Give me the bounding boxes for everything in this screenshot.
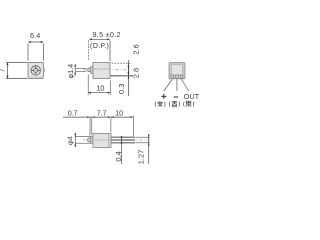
extension dash body top to dim stack (112, 62, 131, 64)
rear pin 3 (180, 75, 183, 78)
minus label (174, 96, 178, 98)
dimension 6.4 extension lines (27, 44, 29, 61)
rear view inner face (172, 65, 182, 75)
body right edge shade (108, 63, 109, 78)
dimension 9.5 +-0.2 extension lines (88, 41, 90, 61)
bottom center line (83, 139, 150, 141)
svg-text:7.7: 7.7 (97, 108, 107, 117)
chain extension lines (89, 118, 91, 136)
phi 4 arrows (74, 133, 76, 147)
svg-text:1.27: 1.27 (137, 150, 146, 164)
screw cross slot vertical (35, 66, 37, 75)
svg-text:φ4: φ4 (66, 136, 75, 145)
svg-text:10: 10 (96, 83, 104, 92)
rear view outer square (169, 63, 185, 79)
front square inner shade (29, 76, 43, 78)
top dimension chain line (63, 116, 133, 118)
dimension 0.4 leader line (121, 136, 123, 164)
bottom shaft collar (91, 137, 93, 144)
dim stack arrows at center line (128, 67, 130, 73)
center line (83, 69, 131, 71)
pin (side view lead) (110, 75, 133, 77)
svg-text:10: 10 (115, 108, 123, 117)
svg-text:2.8: 2.8 (132, 68, 141, 79)
rear pin 2 (176, 75, 179, 78)
shaft tip (88, 68, 91, 72)
dim stack arrow up at body top (128, 63, 130, 66)
rear pin 1 (171, 75, 174, 78)
front view body (28, 63, 44, 79)
svg-text:0.3: 0.3 (117, 84, 126, 95)
shaft collar (91, 67, 93, 74)
svg-text:2.6: 2.6 (132, 44, 141, 55)
lead 3 (111, 142, 135, 144)
dimension 1.27 leader line (148, 136, 150, 165)
side view body (93, 63, 110, 79)
wire color label (black 黒) (184, 101, 194, 106)
screw cross slot horizontal (31, 69, 40, 71)
lead 1 (111, 136, 135, 138)
svg-text:7: 7 (0, 68, 7, 72)
bottom view body (93, 134, 111, 148)
rear inner hatch (172, 65, 182, 74)
front view side nub (43, 69, 44, 72)
svg-text:(O.P.): (O.P.) (90, 43, 109, 50)
dimension 7 line (7, 63, 9, 78)
dim stack arrows at pin (128, 73, 130, 79)
bottom shaft tip (88, 138, 91, 142)
chain arrows (87, 116, 90, 118)
lead 2 (111, 139, 135, 141)
plus label (161, 94, 166, 99)
svg-text:0.7: 0.7 (68, 108, 78, 117)
svg-text:0.4: 0.4 (114, 151, 123, 162)
dimension 9.5 line (89, 38, 109, 40)
lead extension stubs (136, 136, 151, 138)
0.4 arrows at middle lead (121, 136, 123, 139)
bottom body seam (108, 134, 110, 147)
wire color label (brown 茶) (155, 101, 165, 107)
phi 1.4 extension lines (76, 67, 87, 69)
bottom body mid line (94, 139, 111, 141)
dimension 6.4 line (28, 41, 43, 43)
1.27 arrows (148, 134, 150, 137)
leader line pin2 to minus (176, 80, 178, 92)
dimension 7 extension lines (6, 62, 27, 64)
wire color label (blue 青) (169, 101, 179, 107)
side view bottom dim: ext lines (87, 75, 89, 95)
screw inner circle (34, 68, 38, 72)
leader line pin1 to plus (164, 80, 172, 92)
leader line pin3 to OUT (182, 80, 189, 92)
svg-text:9.5 ±0.2: 9.5 ±0.2 (93, 30, 121, 39)
svg-text:OUT: OUT (184, 92, 200, 101)
phi 4 extension lines (75, 136, 90, 138)
dimension stack vertical line (128, 60, 130, 96)
body seam line (94, 68, 110, 70)
adjustment screw outer circle (31, 66, 40, 75)
svg-text:φ1.4: φ1.4 (66, 64, 75, 79)
svg-text:6.4: 6.4 (30, 31, 40, 40)
bottom body right shade (109, 134, 111, 147)
phi 1.4 arrows (74, 65, 76, 68)
